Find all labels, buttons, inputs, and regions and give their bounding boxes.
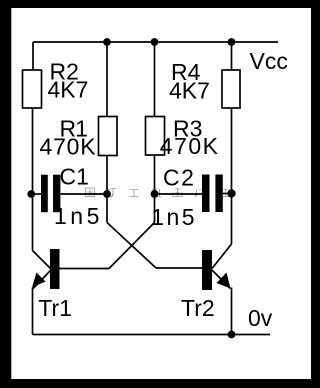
svg-text:1n5: 1n5 xyxy=(54,203,103,229)
wire top rail Vcc xyxy=(33,41,278,43)
resistor R4 xyxy=(169,59,240,108)
wire bottom rail 0v xyxy=(33,334,271,336)
wire R2 bottom to Tr1 collector bend xyxy=(32,108,34,251)
wire Tr2 emitter diagonal xyxy=(212,270,231,289)
svg-text:Tr2: Tr2 xyxy=(181,295,215,321)
svg-text:C2: C2 xyxy=(163,165,195,191)
wire C2 right stub xyxy=(223,193,232,195)
wire C1 right to R1 line xyxy=(61,193,108,195)
wire right drop to R4 xyxy=(231,42,233,70)
node Vcc junction dot R1 xyxy=(103,38,111,46)
resistor R3 xyxy=(146,115,220,159)
svg-text:4K7: 4K7 xyxy=(169,77,210,103)
transistor Tr1 xyxy=(32,249,72,321)
svg-text:C1: C1 xyxy=(60,163,89,189)
resistor R1 xyxy=(40,115,118,159)
wire Tr2 collector diagonal xyxy=(212,244,232,269)
node Vcc junction dot R3 xyxy=(151,38,159,46)
wire Tr2 emitter to bottom rail xyxy=(231,288,233,335)
node C1 left junction dot xyxy=(27,190,35,198)
wire left drop to R2 xyxy=(32,42,34,70)
svg-text:4K7: 4K7 xyxy=(48,77,89,103)
wire C1 left stub xyxy=(33,193,41,195)
resistor R2 xyxy=(23,59,89,109)
svg-text:1n5: 1n5 xyxy=(151,204,197,230)
svg-text:Vcc: Vcc xyxy=(250,48,288,74)
wire R4 bottom to Tr2 collector bend xyxy=(231,108,233,244)
wire Tr1 collector diagonal xyxy=(33,251,52,270)
wire R1 bottom to bend xyxy=(106,156,108,223)
wire Tr1 base horizontal xyxy=(60,268,110,270)
svg-text:0v: 0v xyxy=(248,305,273,331)
svg-text:Tr1: Tr1 xyxy=(38,295,72,321)
transistor Tr2 xyxy=(181,250,231,321)
node C2 right junction dot xyxy=(227,189,235,197)
capacitor C1 xyxy=(41,163,103,229)
node C2-R3 junction dot xyxy=(151,190,159,198)
wire R3 top xyxy=(154,42,156,117)
wire R1 top xyxy=(106,42,108,117)
wire diagonal R3 to Tr1 base xyxy=(109,223,155,269)
wire diagonal R1 to Tr2 base xyxy=(107,223,156,269)
wire Tr1 emitter diagonal xyxy=(33,270,51,289)
wire C2 left from R3 line xyxy=(155,193,203,195)
wire Tr2 base horizontal xyxy=(156,267,202,269)
svg-text:470K: 470K xyxy=(40,134,97,160)
node Vcc junction dot R4 xyxy=(228,38,236,46)
node C1-R1 junction dot xyxy=(103,190,111,198)
wire Tr1 emitter to bottom rail xyxy=(32,288,34,335)
node 0v junction dot xyxy=(228,331,236,339)
capacitor C2 xyxy=(151,165,223,230)
wire R3 bottom to bend xyxy=(154,155,156,223)
svg-text:470K: 470K xyxy=(160,133,220,159)
